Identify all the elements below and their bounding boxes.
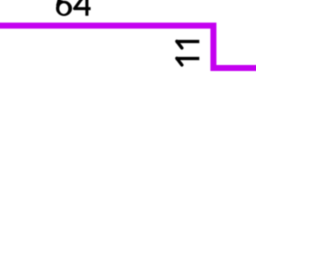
digit 1 (lower): stem: [176, 57, 200, 60]
digit 1 (upper): stem: [176, 40, 200, 43]
digit 1 (lower): flag: [177, 58, 182, 65]
digit 4: diagonal and crossbar: [75, 0, 91, 9]
bus width label "64" (top of digits cropped by image edge): [56, 0, 91, 16]
digit 4: stem: [85, 0, 88, 16]
digit 1 (upper): flag: [177, 41, 182, 48]
bus width label "11" (rotated 90deg CCW, reads bottom-to-top): [176, 41, 200, 65]
digit 6: ascender stroke (cropped): [58, 0, 60, 6]
bus wire (magenta), enters left edge, steps down past corner, exits right edge: [0, 26, 260, 68]
digit 6: ascender-to-bowl blend: [59, 0, 63, 2]
digit 6: bowl (ring with stroke contrast): [56, 1, 72, 16]
